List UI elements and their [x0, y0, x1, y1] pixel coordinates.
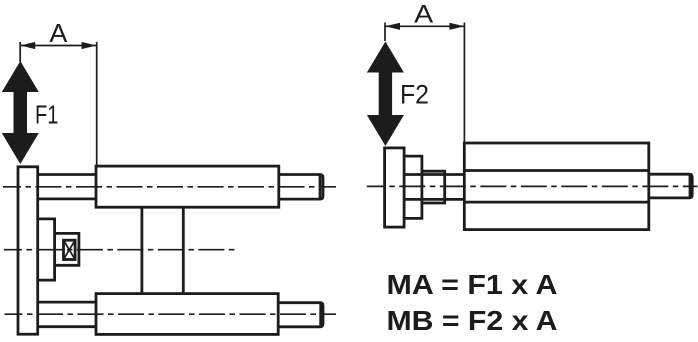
centerline middle-left axis — [4, 249, 238, 251]
right flange plate — [385, 148, 405, 227]
svg-text:A: A — [414, 0, 433, 28]
right piston rod (flange to cylinder) — [404, 173, 464, 176]
dimension A right: dimension line — [385, 25, 464, 27]
dimension A left: dimension line — [20, 45, 97, 47]
force arrow F1 — [2, 61, 39, 164]
svg-text:F1: F1 — [35, 99, 59, 129]
centerline right assembly axis — [367, 185, 698, 187]
svg-text:MA = F1 x A: MA = F1 x A — [387, 268, 558, 300]
right rod threaded end — [649, 174, 692, 198]
dimension A left: extension lines — [19, 42, 21, 62]
right collar step 1 — [404, 156, 422, 218]
right cylinder bore line top — [464, 169, 649, 172]
right collar step 2 (thin) — [422, 171, 445, 203]
top rod threaded end — [279, 175, 323, 200]
centerline bottom-left rod axis — [5, 313, 337, 315]
right cylinder bore line bottom — [464, 201, 649, 204]
bottom cylinder body — [96, 294, 278, 335]
center yoke — [140, 207, 143, 292]
bottom piston rod (plate to cylinder) — [38, 301, 96, 304]
top cylinder body — [96, 166, 279, 207]
bottom rod threaded end — [278, 303, 323, 327]
left mounting plate — [18, 167, 38, 334]
dimension A left: arrowheads — [20, 42, 35, 49]
dimension A right: arrowheads — [385, 23, 400, 30]
top piston rod (plate to cylinder) — [38, 173, 96, 176]
mounting bracket step 2 — [55, 233, 79, 265]
mounting bracket step 1 — [38, 219, 55, 280]
right cylinder body — [464, 143, 649, 230]
svg-text:A: A — [49, 18, 68, 48]
svg-text:F2: F2 — [400, 80, 429, 110]
centerline top-left rod axis — [3, 186, 336, 188]
dimension A right: extension lines — [384, 23, 386, 42]
pivot bearing box with cross — [64, 240, 76, 259]
force arrow F2 — [367, 42, 404, 147]
svg-text:MB = F2 x A: MB = F2 x A — [387, 304, 558, 336]
